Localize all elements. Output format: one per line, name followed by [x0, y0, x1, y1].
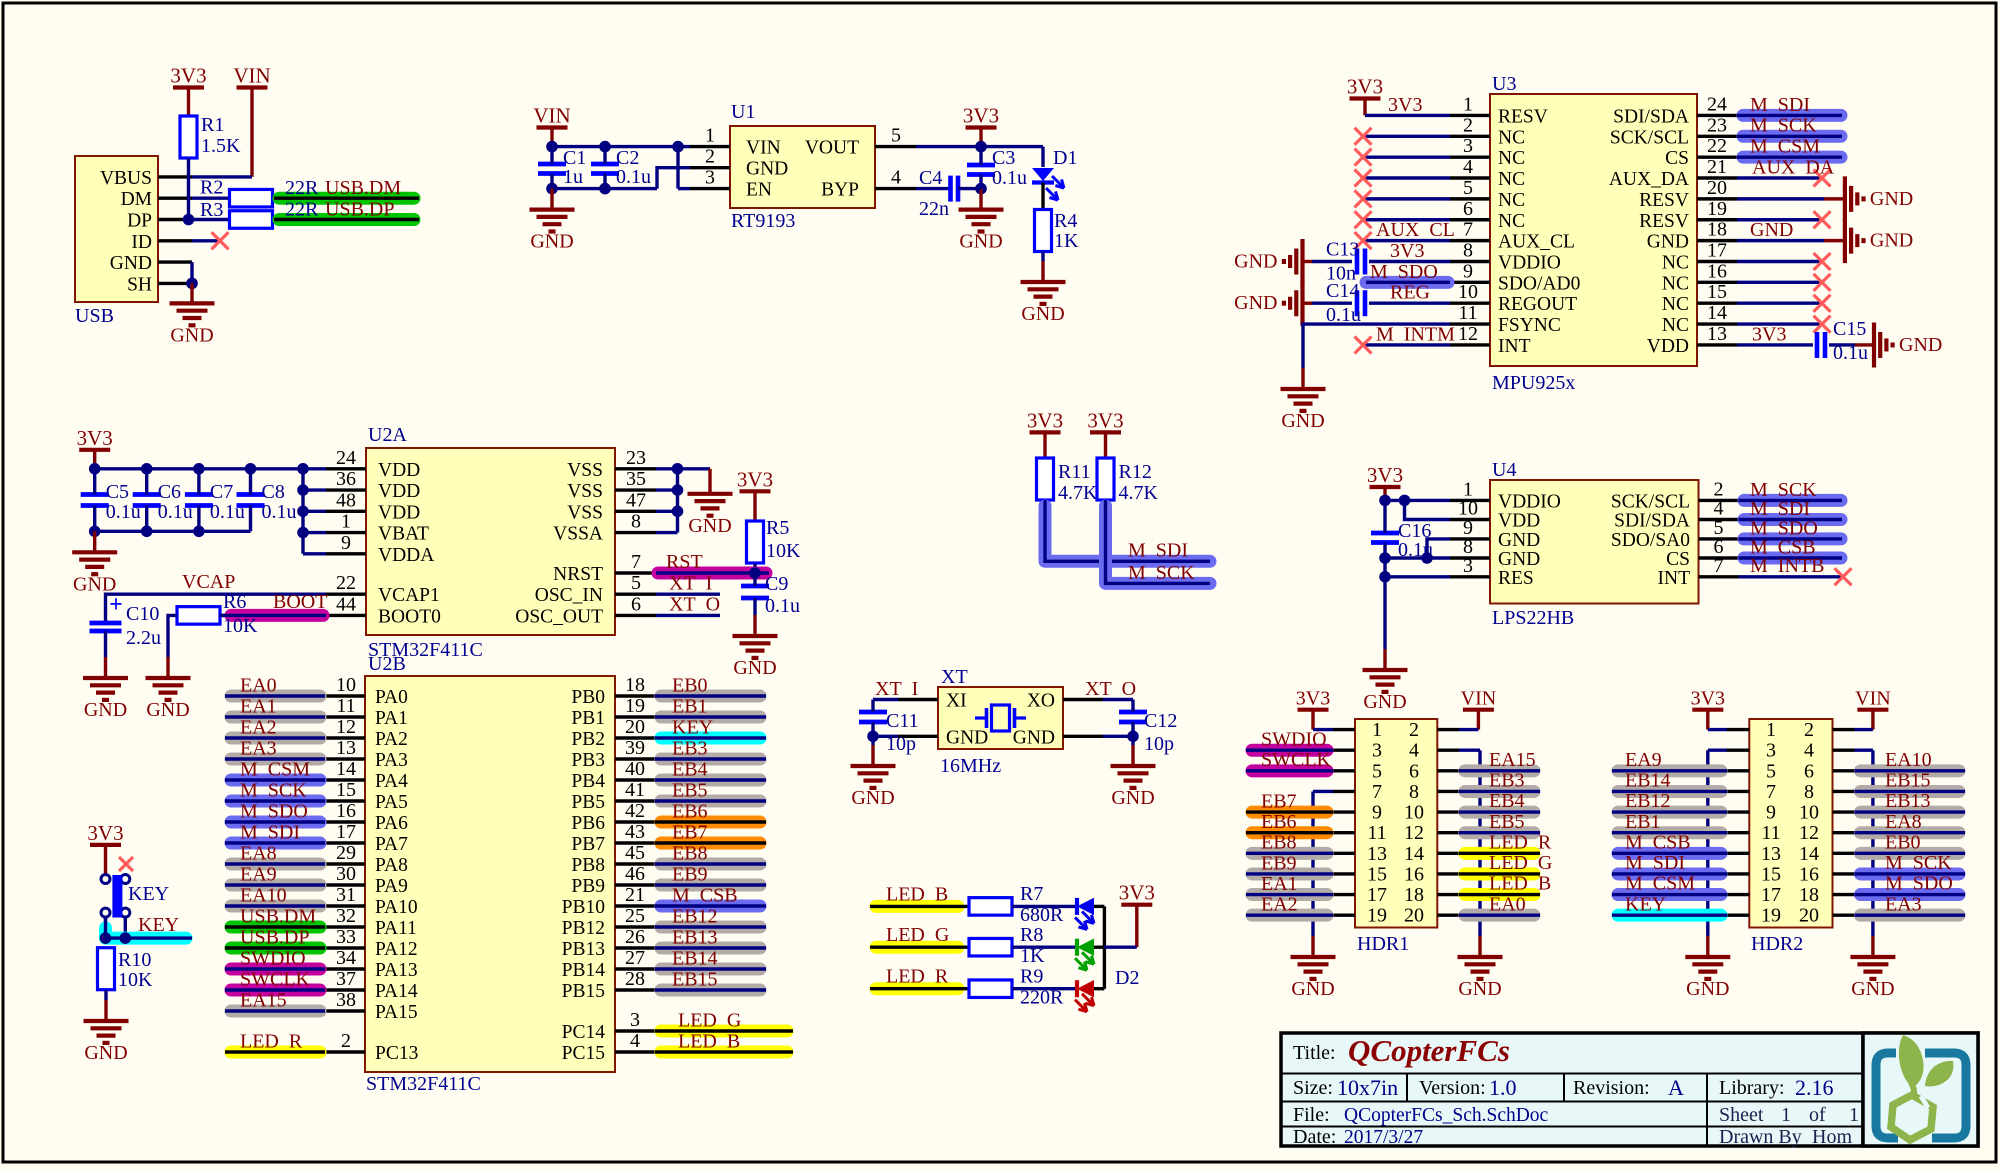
svg-text:13: 13 [336, 737, 356, 759]
svg-text:M SCK: M SCK [1750, 115, 1817, 137]
svg-text:C7: C7 [210, 481, 233, 503]
svg-text:24: 24 [336, 447, 356, 469]
svg-text:3V3: 3V3 [1367, 463, 1403, 487]
svg-text:AUX CL: AUX CL [1376, 219, 1455, 241]
svg-text:D1: D1 [1053, 147, 1077, 169]
svg-text:46: 46 [625, 863, 645, 885]
svg-text:KEY: KEY [138, 914, 179, 936]
svg-text:PB4: PB4 [571, 771, 605, 792]
svg-text:SDI/SDA: SDI/SDA [1613, 106, 1689, 127]
svg-text:10K: 10K [223, 615, 258, 637]
svg-text:LED G: LED G [886, 924, 949, 946]
svg-text:20: 20 [1799, 905, 1819, 927]
svg-text:C5: C5 [106, 481, 129, 503]
svg-text:2: 2 [1804, 719, 1814, 741]
svg-text:KEY: KEY [672, 717, 713, 739]
svg-text:HDR1: HDR1 [1357, 933, 1409, 955]
svg-text:PC15: PC15 [562, 1043, 605, 1064]
svg-text:2.16: 2.16 [1795, 1075, 1834, 1100]
svg-text:R8: R8 [1020, 924, 1043, 946]
svg-text:VSS: VSS [567, 460, 603, 481]
svg-text:KEY: KEY [1625, 893, 1666, 915]
svg-text:EB1: EB1 [672, 696, 708, 718]
svg-text:C4: C4 [919, 167, 942, 189]
svg-text:VSSA: VSSA [553, 524, 603, 545]
svg-text:VCAP: VCAP [182, 571, 235, 593]
svg-text:Version:: Version: [1419, 1077, 1486, 1099]
svg-text:1: 1 [1372, 719, 1382, 741]
svg-text:R1: R1 [201, 114, 224, 136]
svg-text:PB0: PB0 [571, 687, 605, 708]
svg-text:EB13: EB13 [1885, 790, 1931, 812]
svg-text:VIN: VIN [1855, 688, 1891, 710]
svg-text:44: 44 [336, 593, 356, 615]
svg-text:SCK/SCL: SCK/SCL [1611, 491, 1690, 512]
svg-text:7: 7 [1463, 219, 1473, 241]
svg-text:10: 10 [336, 674, 356, 696]
svg-text:23: 23 [1707, 114, 1727, 136]
svg-text:16: 16 [1404, 863, 1424, 885]
svg-text:3V3: 3V3 [1691, 688, 1725, 710]
svg-text:EA3: EA3 [240, 738, 277, 760]
svg-text:R10: R10 [118, 949, 151, 971]
svg-text:3V3: 3V3 [1347, 75, 1383, 99]
svg-text:9: 9 [341, 532, 351, 554]
svg-text:5: 5 [891, 125, 901, 147]
svg-text:GND: GND [1021, 303, 1064, 325]
svg-text:SDO/SA0: SDO/SA0 [1611, 530, 1690, 551]
svg-text:5: 5 [1766, 760, 1776, 782]
svg-text:C3: C3 [992, 147, 1015, 169]
svg-text:M CSM: M CSM [240, 759, 310, 781]
svg-text:6: 6 [1463, 198, 1473, 220]
svg-text:EB15: EB15 [1885, 770, 1931, 792]
svg-text:PB6: PB6 [571, 813, 605, 834]
svg-text:XT I: XT I [669, 573, 712, 595]
svg-text:VOUT: VOUT [805, 138, 859, 159]
svg-text:SWDIO: SWDIO [240, 948, 306, 970]
svg-text:PB9: PB9 [571, 876, 605, 897]
svg-text:PB12: PB12 [562, 918, 605, 939]
svg-text:3V3: 3V3 [1388, 94, 1422, 116]
svg-text:EA10: EA10 [1885, 749, 1932, 771]
svg-text:C11: C11 [886, 710, 919, 732]
svg-text:12: 12 [1799, 822, 1819, 844]
svg-text:PA10: PA10 [375, 897, 418, 918]
svg-text:1.5K: 1.5K [201, 135, 241, 157]
svg-text:0.1u: 0.1u [262, 501, 297, 523]
svg-text:8: 8 [631, 511, 641, 533]
svg-text:AUX_CL: AUX_CL [1498, 232, 1575, 253]
svg-text:39: 39 [625, 737, 645, 759]
svg-text:AUX DA: AUX DA [1752, 157, 1835, 179]
svg-text:EB4: EB4 [1489, 790, 1525, 812]
svg-text:GND: GND [1686, 978, 1729, 1000]
svg-text:GND: GND [1013, 727, 1055, 748]
svg-text:C8: C8 [262, 481, 285, 503]
svg-text:R6: R6 [223, 591, 246, 613]
svg-text:EB0: EB0 [1885, 831, 1921, 853]
svg-text:HDR2: HDR2 [1751, 933, 1803, 955]
svg-text:GND: GND [1870, 230, 1913, 252]
svg-text:U1: U1 [731, 101, 755, 123]
svg-text:EB7: EB7 [1261, 790, 1297, 812]
svg-text:D2: D2 [1115, 967, 1139, 989]
svg-text:17: 17 [1367, 884, 1387, 906]
svg-text:15: 15 [1761, 863, 1781, 885]
svg-text:30: 30 [336, 863, 356, 885]
svg-text:C15: C15 [1833, 318, 1866, 340]
svg-text:USB.DP: USB.DP [325, 199, 394, 221]
svg-text:C6: C6 [158, 481, 181, 503]
svg-text:GND: GND [1750, 219, 1793, 241]
svg-text:VDD: VDD [1498, 511, 1540, 532]
svg-text:GND: GND [146, 699, 189, 721]
svg-text:R4: R4 [1054, 210, 1077, 232]
svg-text:BOOT0: BOOT0 [378, 606, 441, 627]
svg-text:18: 18 [1799, 884, 1819, 906]
svg-text:M SDI: M SDI [1750, 94, 1810, 116]
svg-text:EB3: EB3 [672, 738, 708, 760]
svg-text:VDDIO: VDDIO [1498, 252, 1561, 273]
svg-text:EA1: EA1 [1261, 873, 1298, 895]
svg-text:PB2: PB2 [571, 729, 605, 750]
svg-text:PB10: PB10 [562, 897, 605, 918]
svg-text:21: 21 [1707, 156, 1727, 178]
svg-text:1.0: 1.0 [1489, 1075, 1517, 1100]
svg-text:EB5: EB5 [672, 780, 708, 802]
svg-text:VDD: VDD [378, 460, 420, 481]
svg-text:M SDI: M SDI [1625, 852, 1685, 874]
svg-text:21: 21 [625, 884, 645, 906]
svg-text:VBAT: VBAT [378, 524, 429, 545]
svg-text:M CSM: M CSM [1750, 136, 1820, 158]
svg-text:1: 1 [705, 125, 715, 147]
svg-text:20: 20 [625, 716, 645, 738]
svg-text:AUX_DA: AUX_DA [1609, 169, 1689, 190]
svg-text:SWDIO: SWDIO [1261, 729, 1327, 751]
svg-text:ID: ID [131, 232, 152, 253]
svg-text:3V3: 3V3 [963, 104, 999, 128]
svg-text:NC: NC [1498, 127, 1525, 148]
svg-text:C9: C9 [765, 573, 788, 595]
svg-text:U2A: U2A [368, 424, 407, 446]
svg-text:M SDO: M SDO [1370, 261, 1438, 283]
svg-text:USB: USB [75, 305, 114, 327]
svg-text:Size:: Size: [1293, 1077, 1333, 1099]
svg-text:M SDO: M SDO [240, 801, 308, 823]
svg-text:17: 17 [1707, 239, 1727, 261]
svg-text:18: 18 [1707, 219, 1727, 241]
svg-text:EB9: EB9 [672, 864, 708, 886]
svg-text:DP: DP [127, 211, 152, 232]
svg-text:GND: GND [84, 699, 127, 721]
svg-text:VIN: VIN [233, 64, 270, 88]
svg-text:XT O: XT O [669, 594, 720, 616]
svg-text:33: 33 [336, 926, 356, 948]
svg-text:BOOT: BOOT [273, 591, 327, 613]
svg-text:2017/3/27: 2017/3/27 [1344, 1127, 1423, 1148]
svg-text:3V3: 3V3 [737, 467, 773, 491]
svg-text:PB15: PB15 [562, 981, 605, 1002]
svg-text:PC14: PC14 [562, 1022, 606, 1043]
svg-text:U4: U4 [1492, 459, 1516, 481]
svg-text:Revision:: Revision: [1573, 1077, 1650, 1099]
svg-text:M SDI: M SDI [240, 822, 300, 844]
svg-text:NC: NC [1498, 169, 1525, 190]
svg-text:EB12: EB12 [1625, 790, 1671, 812]
svg-text:QCopterFCs: QCopterFCs [1348, 1033, 1510, 1068]
svg-text:LPS22HB: LPS22HB [1492, 607, 1574, 629]
svg-text:48: 48 [336, 489, 356, 511]
svg-text:0.1u: 0.1u [992, 167, 1027, 189]
svg-text:VIN: VIN [746, 138, 781, 159]
svg-text:20: 20 [1404, 905, 1424, 927]
svg-text:EB13: EB13 [672, 927, 718, 949]
svg-text:22: 22 [336, 572, 356, 594]
svg-text:3: 3 [630, 1009, 640, 1031]
svg-text:EA0: EA0 [1489, 893, 1526, 915]
svg-text:GND: GND [1458, 978, 1501, 1000]
svg-text:EB8: EB8 [1261, 832, 1297, 854]
svg-text:C13: C13 [1326, 238, 1359, 260]
svg-text:C10: C10 [126, 603, 159, 625]
svg-text:LED R: LED R [886, 966, 949, 988]
svg-text:1: 1 [1781, 1104, 1791, 1126]
svg-text:GND: GND [733, 657, 776, 679]
svg-text:PA14: PA14 [375, 981, 418, 1002]
svg-text:PA0: PA0 [375, 687, 408, 708]
svg-text:NC: NC [1498, 190, 1525, 211]
svg-text:RESV: RESV [1498, 106, 1548, 127]
svg-text:EB15: EB15 [672, 969, 718, 991]
svg-text:INT: INT [1498, 336, 1531, 357]
svg-text:EA2: EA2 [1261, 894, 1298, 916]
svg-text:6: 6 [1804, 760, 1814, 782]
svg-text:EB4: EB4 [672, 759, 708, 781]
svg-text:PA3: PA3 [375, 750, 408, 771]
svg-text:11: 11 [1367, 822, 1386, 844]
svg-text:EA15: EA15 [1489, 749, 1536, 771]
svg-text:10K: 10K [766, 540, 801, 562]
svg-text:REG: REG [1390, 282, 1430, 304]
svg-text:PA7: PA7 [375, 834, 408, 855]
svg-text:XI: XI [946, 691, 967, 712]
svg-text:3V3: 3V3 [87, 821, 123, 845]
svg-text:2: 2 [1409, 719, 1419, 741]
svg-text:VBUS: VBUS [100, 168, 152, 189]
svg-text:GND: GND [170, 324, 213, 346]
svg-text:28: 28 [625, 968, 645, 990]
svg-text:0.1u: 0.1u [210, 501, 245, 523]
svg-text:RES: RES [1498, 568, 1534, 589]
svg-text:PB1: PB1 [571, 708, 605, 729]
svg-text:3: 3 [1463, 135, 1473, 157]
svg-text:REGOUT: REGOUT [1498, 294, 1577, 315]
svg-text:EB6: EB6 [1261, 811, 1297, 833]
svg-text:R9: R9 [1020, 966, 1043, 988]
svg-text:EB5: EB5 [1489, 811, 1525, 833]
svg-text:PA13: PA13 [375, 960, 418, 981]
svg-text:37: 37 [336, 968, 356, 990]
svg-text:10x7in: 10x7in [1337, 1075, 1398, 1100]
svg-text:EB9: EB9 [1261, 852, 1297, 874]
svg-text:of: of [1809, 1104, 1826, 1126]
svg-text:2: 2 [705, 146, 715, 168]
svg-text:A: A [1668, 1075, 1684, 1100]
svg-text:GND: GND [1498, 530, 1540, 551]
svg-text:5: 5 [631, 572, 641, 594]
svg-text:VDD: VDD [1647, 336, 1689, 357]
svg-text:11: 11 [1761, 822, 1780, 844]
svg-text:17: 17 [336, 821, 356, 843]
svg-text:12: 12 [336, 716, 356, 738]
svg-text:EA15: EA15 [240, 990, 287, 1012]
svg-text:3V3: 3V3 [1296, 688, 1330, 710]
svg-text:14: 14 [1799, 843, 1819, 865]
svg-text:9: 9 [1463, 260, 1473, 282]
svg-text:EB8: EB8 [672, 843, 708, 865]
svg-text:M SCK: M SCK [1885, 852, 1952, 874]
svg-text:10p: 10p [1144, 733, 1174, 755]
svg-text:VSS: VSS [567, 481, 603, 502]
svg-text:1: 1 [1463, 93, 1473, 115]
svg-text:0.1u: 0.1u [158, 501, 193, 523]
svg-text:U2B: U2B [368, 653, 406, 675]
svg-text:10: 10 [1404, 802, 1424, 824]
svg-text:8: 8 [1463, 239, 1473, 261]
svg-text:GND: GND [1111, 787, 1154, 809]
svg-text:16: 16 [1707, 260, 1727, 282]
svg-text:12: 12 [1458, 323, 1478, 345]
svg-text:7: 7 [631, 551, 641, 573]
svg-text:3V3: 3V3 [1087, 408, 1123, 432]
svg-text:GND: GND [1234, 292, 1277, 314]
svg-text:9: 9 [1372, 802, 1382, 824]
svg-text:PB5: PB5 [571, 792, 605, 813]
svg-text:3: 3 [705, 167, 715, 189]
svg-text:EB14: EB14 [1625, 770, 1671, 792]
svg-text:R7: R7 [1020, 883, 1043, 905]
svg-text:19: 19 [1761, 905, 1781, 927]
svg-text:35: 35 [626, 468, 646, 490]
svg-text:STM32F411C: STM32F411C [366, 1073, 481, 1095]
svg-text:6: 6 [631, 593, 641, 615]
svg-text:M SDO: M SDO [1885, 873, 1953, 895]
svg-text:M CSB: M CSB [672, 885, 738, 907]
svg-text:EB12: EB12 [672, 906, 718, 928]
svg-text:1: 1 [1766, 719, 1776, 741]
svg-text:LED R: LED R [1489, 831, 1552, 853]
svg-text:16: 16 [1799, 863, 1819, 885]
svg-text:1: 1 [1849, 1104, 1859, 1126]
svg-text:R3: R3 [200, 199, 223, 221]
svg-text:14: 14 [1707, 302, 1727, 324]
svg-text:8: 8 [1409, 781, 1419, 803]
svg-text:43: 43 [625, 821, 645, 843]
svg-text:M CSB: M CSB [1625, 831, 1691, 853]
svg-text:14: 14 [1404, 843, 1424, 865]
svg-text:C14: C14 [1326, 280, 1359, 302]
svg-text:OSC_OUT: OSC_OUT [515, 606, 603, 627]
svg-text:42: 42 [625, 800, 645, 822]
svg-text:4: 4 [1463, 156, 1473, 178]
svg-text:GND: GND [1851, 978, 1894, 1000]
svg-text:RT9193: RT9193 [731, 210, 795, 232]
svg-text:11: 11 [336, 695, 355, 717]
svg-text:5: 5 [1372, 760, 1382, 782]
svg-text:GND: GND [1281, 410, 1324, 432]
svg-text:SDO/AD0: SDO/AD0 [1498, 273, 1580, 294]
svg-text:3V3: 3V3 [1752, 323, 1786, 345]
svg-text:GND: GND [1291, 978, 1334, 1000]
svg-text:+: + [109, 592, 123, 618]
svg-text:CS: CS [1665, 148, 1689, 169]
svg-text:LED G: LED G [1489, 852, 1552, 874]
svg-text:13: 13 [1367, 843, 1387, 865]
svg-text:GND: GND [746, 159, 788, 180]
svg-text:NC: NC [1662, 315, 1689, 336]
svg-text:GND: GND [530, 231, 573, 253]
svg-text:RESV: RESV [1639, 211, 1689, 232]
svg-text:EA9: EA9 [1625, 749, 1662, 771]
svg-text:EA1: EA1 [240, 696, 277, 718]
svg-text:22R: 22R [285, 199, 319, 221]
svg-text:GND: GND [851, 787, 894, 809]
svg-text:EA8: EA8 [240, 843, 277, 865]
svg-text:15: 15 [336, 779, 356, 801]
svg-text:47: 47 [626, 489, 646, 511]
svg-text:41: 41 [625, 779, 645, 801]
svg-text:PA11: PA11 [375, 918, 417, 939]
svg-text:17: 17 [1761, 884, 1781, 906]
svg-text:C12: C12 [1144, 710, 1177, 732]
svg-text:8: 8 [1804, 781, 1814, 803]
svg-text:2.2u: 2.2u [126, 627, 161, 649]
svg-text:16: 16 [336, 800, 356, 822]
svg-text:BYP: BYP [821, 180, 859, 201]
svg-text:R5: R5 [766, 517, 789, 539]
svg-text:NC: NC [1498, 211, 1525, 232]
svg-text:Drawn By: Drawn By [1719, 1126, 1802, 1148]
svg-text:Sheet: Sheet [1719, 1104, 1764, 1126]
svg-text:26: 26 [625, 926, 645, 948]
svg-text:EA2: EA2 [240, 717, 277, 739]
svg-text:FSYNC: FSYNC [1498, 315, 1561, 336]
svg-text:EA8: EA8 [1885, 811, 1922, 833]
svg-text:38: 38 [336, 989, 356, 1011]
svg-text:LED B: LED B [1489, 873, 1551, 895]
svg-text:0.1u: 0.1u [616, 166, 651, 188]
svg-text:10: 10 [1799, 802, 1819, 824]
svg-text:VDD: VDD [378, 481, 420, 502]
svg-text:SWCLK: SWCLK [240, 969, 311, 991]
svg-text:12: 12 [1404, 822, 1424, 844]
svg-text:22n: 22n [919, 198, 949, 220]
svg-text:10K: 10K [118, 969, 153, 991]
svg-text:22R: 22R [285, 177, 319, 199]
svg-text:9: 9 [1766, 802, 1776, 824]
svg-text:M SCK: M SCK [1128, 562, 1195, 584]
svg-text:INT: INT [1658, 568, 1691, 589]
svg-text:R2: R2 [200, 177, 223, 199]
svg-text:M SDI: M SDI [1128, 540, 1188, 562]
svg-text:PA2: PA2 [375, 729, 408, 750]
svg-text:PB13: PB13 [562, 939, 605, 960]
svg-text:19: 19 [1367, 905, 1387, 927]
svg-text:36: 36 [336, 468, 356, 490]
svg-text:18: 18 [1404, 884, 1424, 906]
